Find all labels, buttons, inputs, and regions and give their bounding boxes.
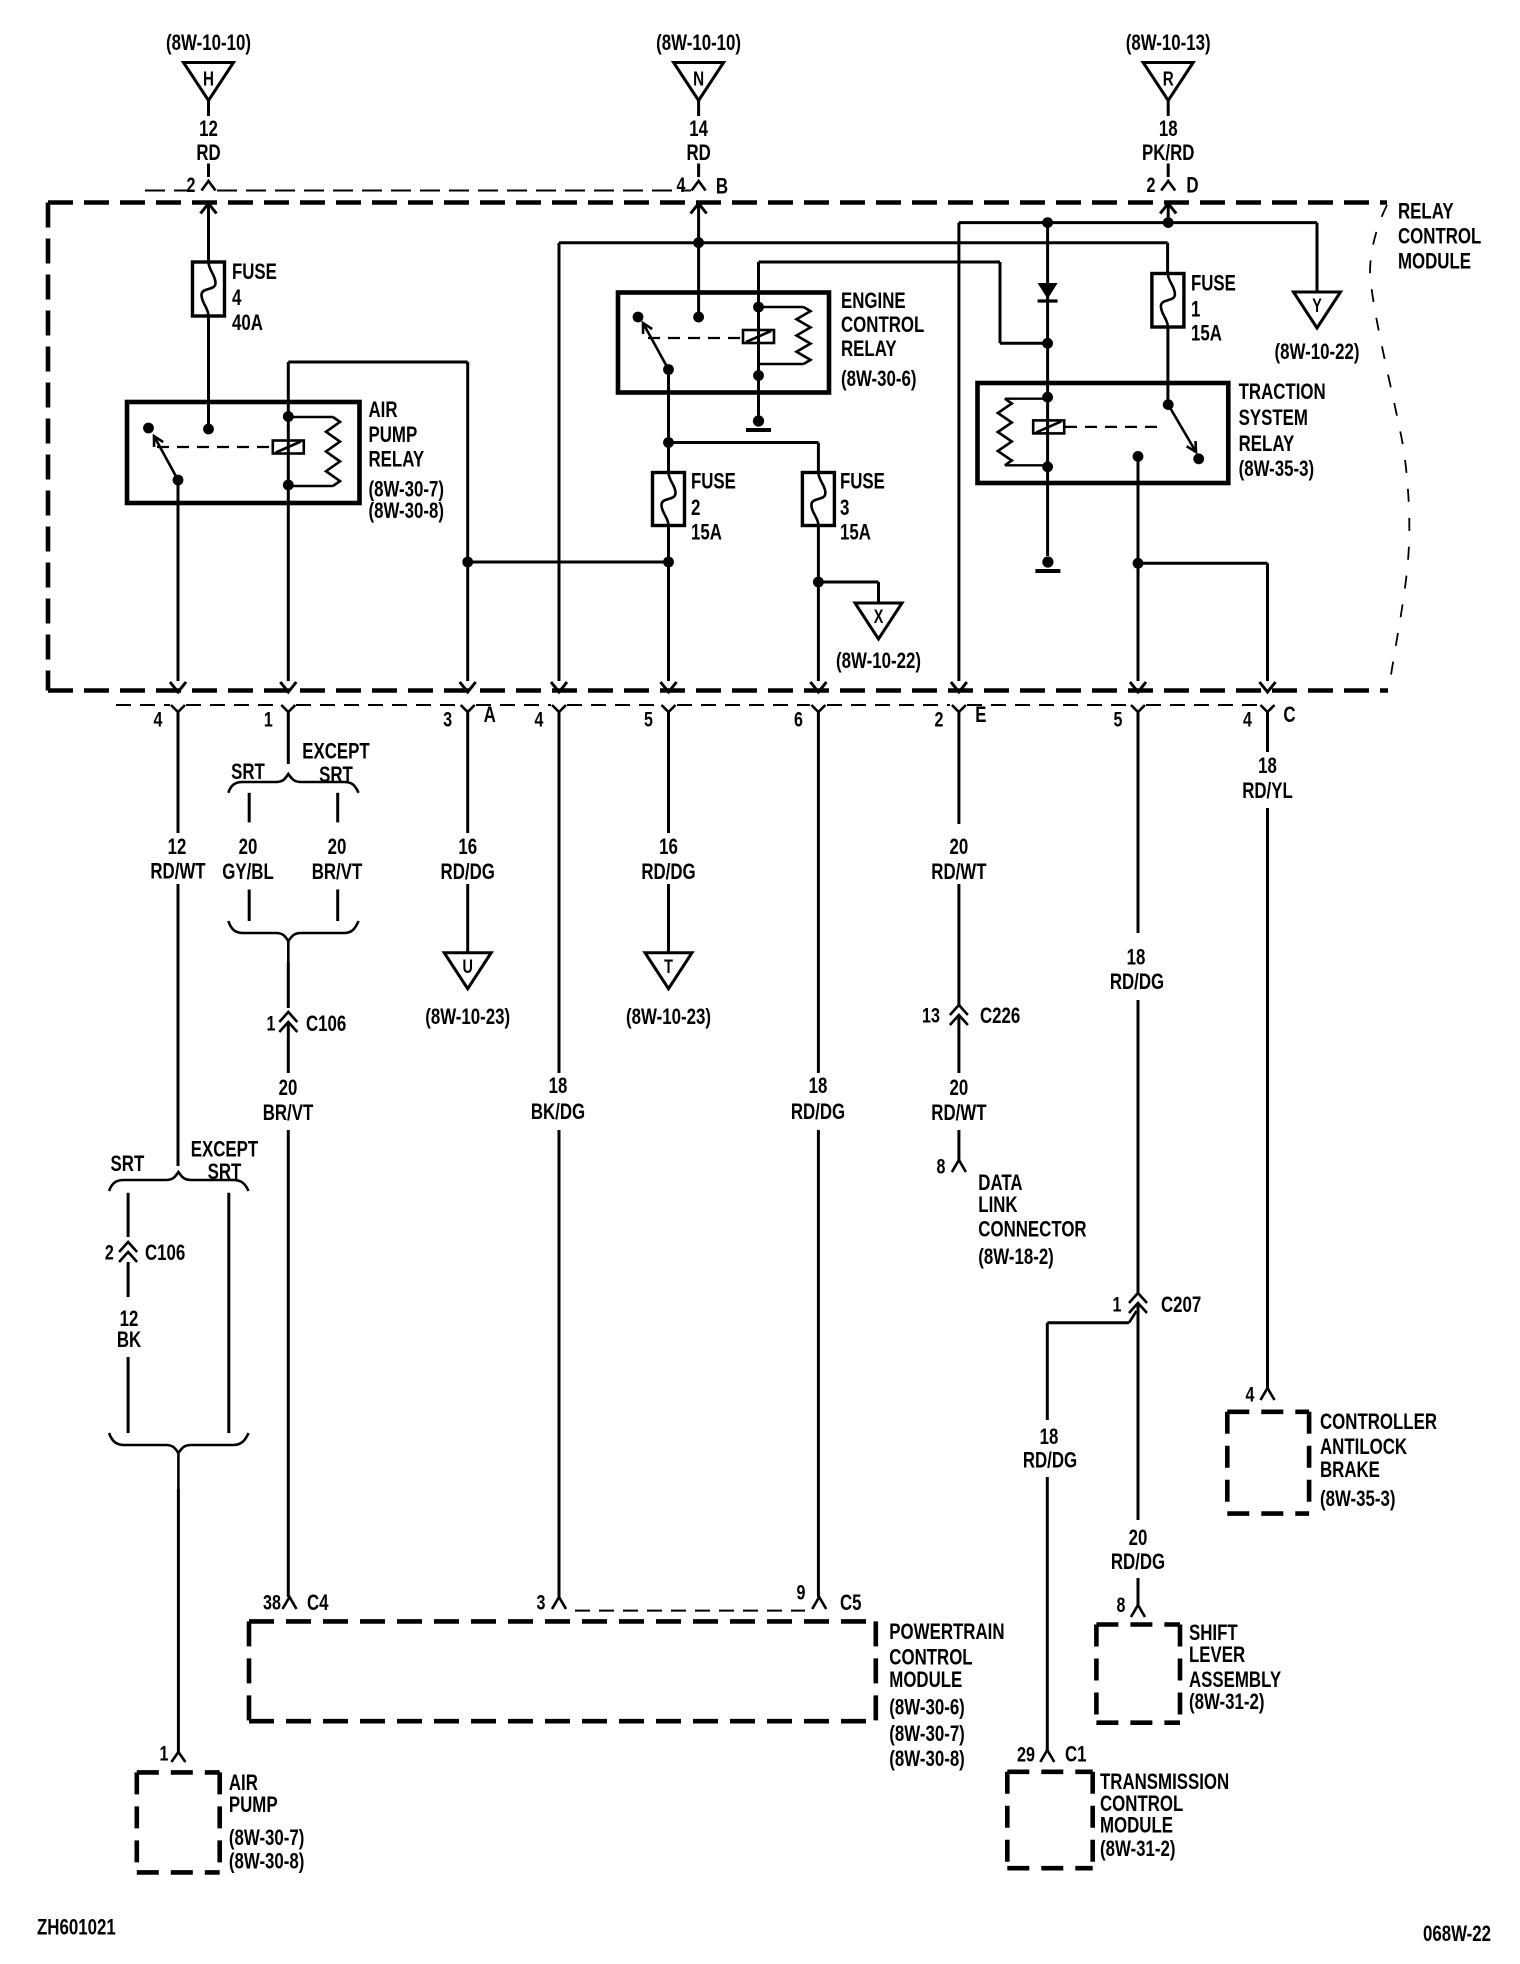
srt option brace upper — [228, 774, 358, 793]
relay control module label — [1398, 199, 1481, 274]
pin 4 exit arrow — [170, 682, 186, 692]
svg-text:1: 1 — [264, 708, 273, 732]
wire E column — [957, 223, 960, 681]
svg-text:(8W-10-10): (8W-10-10) — [166, 30, 251, 55]
branch to pin C — [1138, 563, 1268, 681]
connector T (8W-10-23) — [626, 953, 711, 1029]
wire to TCM pin29 — [1046, 1477, 1049, 1750]
svg-text:6: 6 — [794, 708, 803, 732]
svg-text:CONNECTOR: CONNECTOR — [978, 1217, 1086, 1242]
svg-text:H: H — [203, 68, 214, 90]
in-line connector C226 pin 13 — [922, 1003, 1020, 1028]
wire traction output to pin5 — [1133, 456, 1144, 681]
svg-text:RD/DG: RD/DG — [1023, 1447, 1077, 1472]
node D entry arrow into module — [1160, 204, 1176, 223]
svg-text:RD: RD — [196, 140, 220, 165]
svg-text:(8W-10-23): (8W-10-23) — [425, 1004, 510, 1029]
pin 1 exit arrow — [280, 682, 296, 692]
svg-text:(8W-10-22): (8W-10-22) — [1275, 339, 1360, 364]
svg-text:5: 5 — [644, 708, 653, 732]
wire below C226 — [957, 1015, 960, 1073]
svg-text:CONTROL: CONTROL — [841, 312, 924, 337]
svg-text:1: 1 — [267, 1012, 276, 1036]
wire pin4 from switch pivot — [177, 480, 180, 681]
TCM pin 29 connector — [1017, 1742, 1086, 1767]
svg-text:20: 20 — [328, 834, 347, 859]
svg-text:CONTROL: CONTROL — [1398, 224, 1481, 249]
except stub right — [336, 793, 339, 823]
wire BR/VT to PCM — [287, 1130, 290, 1597]
svg-text:1: 1 — [1113, 1293, 1122, 1317]
wire coil top to node A column — [288, 362, 467, 681]
wire fuse4 to air pump relay — [207, 316, 210, 429]
engine control relay coil resistor — [759, 307, 811, 364]
svg-text:4: 4 — [535, 708, 544, 732]
powertrain control module dashed box — [249, 1621, 876, 1721]
wire B to BK/DG column — [559, 243, 699, 681]
module pin 5 connector — [644, 705, 675, 732]
drawing number right — [1423, 1921, 1491, 1946]
module pin 5 connector — [1114, 705, 1145, 732]
svg-text:PK/RD: PK/RD — [1142, 140, 1194, 165]
svg-text:ANTILOCK: ANTILOCK — [1320, 1434, 1408, 1459]
svg-text:5: 5 — [1114, 708, 1123, 732]
svg-text:AIR: AIR — [369, 397, 398, 422]
air pump relay switch contact — [143, 423, 154, 434]
svg-text:TRACTION: TRACTION — [1239, 379, 1326, 404]
svg-text:CONTROL: CONTROL — [889, 1644, 972, 1669]
wire 12 RD/WT upper — [177, 712, 180, 833]
fuse 2 15A — [653, 473, 685, 526]
svg-text:15A: 15A — [691, 520, 722, 545]
module pin 4 connector — [535, 705, 566, 732]
svg-text:4: 4 — [1243, 708, 1252, 732]
svg-text:N: N — [693, 68, 704, 90]
wire fuse2 to pin5 — [663, 526, 674, 682]
wire below C106-2 — [127, 1262, 130, 1297]
svg-text:C106: C106 — [306, 1011, 346, 1036]
except-srt stub wire right — [227, 1193, 230, 1433]
wire fuse1 feed — [1166, 243, 1169, 274]
CAB pin 4 connector — [1246, 1382, 1275, 1406]
svg-text:SRT: SRT — [231, 759, 265, 784]
pin 6 exit arrow — [810, 682, 826, 692]
svg-text:BRAKE: BRAKE — [1320, 1457, 1380, 1482]
traction relay coil box — [1033, 420, 1064, 433]
svg-text:RD/WT: RD/WT — [150, 859, 205, 884]
wire 18 RD/YL upper — [1266, 712, 1269, 752]
engine control relay label — [841, 288, 924, 391]
svg-text:15A: 15A — [840, 520, 871, 545]
svg-text:2: 2 — [187, 173, 196, 197]
traction relay coil resistor — [998, 399, 1048, 466]
in-line connector C207 pin 1 — [1113, 1292, 1202, 1317]
air pump relay coil box — [273, 441, 304, 454]
shift lever assembly dashed box — [1096, 1625, 1180, 1723]
wire 18 RD/DG p5R lower — [1137, 1000, 1140, 1293]
traction relay output terminal — [1133, 451, 1144, 462]
wire label 20 RD/WT upper — [931, 834, 986, 884]
module pin 1 connector — [264, 705, 295, 732]
svg-text:MODULE: MODULE — [1398, 249, 1471, 274]
svg-text:(8W-30-7): (8W-30-7) — [229, 1825, 305, 1850]
svg-text:15A: 15A — [1191, 321, 1222, 346]
svg-text:(8W-30-6): (8W-30-6) — [841, 366, 917, 391]
svg-text:RD/YL: RD/YL — [1242, 778, 1293, 803]
branch wire to TCM — [1047, 1311, 1136, 1420]
svg-text:EXCEPT: EXCEPT — [191, 1137, 259, 1162]
svg-text:8: 8 — [1117, 1593, 1126, 1617]
DLC pin 8 connector — [937, 1155, 966, 1179]
wire label 18 RD/DG p6 — [791, 1073, 845, 1124]
air pump dashed box — [137, 1772, 220, 1872]
wire 18 RD/DG p6 lower — [817, 1130, 820, 1597]
fuse 4 40A — [193, 262, 225, 316]
wire A-column to fuse2 bottom — [468, 561, 669, 564]
wire coil top to diode node — [759, 262, 1048, 343]
svg-text:T: T — [664, 957, 673, 978]
svg-text:(8W-31-2): (8W-31-2) — [1189, 1689, 1265, 1714]
connector Y (8W-10-22) — [1275, 292, 1360, 364]
air pump relay actuate dash link — [157, 446, 272, 448]
svg-text:(8W-35-3): (8W-35-3) — [1239, 456, 1315, 481]
svg-text:BR/VT: BR/VT — [263, 1100, 314, 1125]
svg-text:LEVER: LEVER — [1189, 1642, 1245, 1667]
svg-text:C1: C1 — [1065, 1742, 1087, 1767]
svg-text:2: 2 — [934, 708, 943, 732]
branch to connector Y — [1316, 223, 1319, 292]
svg-text:16: 16 — [659, 834, 678, 859]
svg-text:(8W-18-2): (8W-18-2) — [978, 1244, 1054, 1269]
module pin 6 connector — [794, 705, 825, 732]
svg-text:SRT: SRT — [111, 1151, 145, 1176]
node 2 entry arrow into module — [201, 204, 217, 263]
diode bottom junction — [1042, 338, 1053, 349]
svg-text:C106: C106 — [145, 1240, 185, 1265]
svg-text:C4: C4 — [307, 1590, 329, 1615]
svg-text:12: 12 — [168, 834, 187, 859]
svg-text:C226: C226 — [980, 1003, 1020, 1028]
air pump relay switch pivot — [173, 475, 184, 486]
svg-text:EXCEPT: EXCEPT — [302, 739, 370, 764]
wire below C207 — [1137, 1303, 1140, 1520]
wire label 20 GY/BL — [222, 834, 274, 884]
connector X (8W-10-22) — [836, 603, 921, 673]
svg-text:3: 3 — [443, 708, 452, 732]
svg-text:18: 18 — [1040, 1424, 1059, 1449]
engine control relay actuate dash link — [648, 337, 741, 339]
PCM pin 38 connector — [263, 1590, 329, 1615]
svg-text:(8W-30-6): (8W-30-6) — [889, 1695, 965, 1720]
engine control relay feed node — [693, 312, 704, 323]
engine control relay switch pivot — [663, 364, 674, 375]
wire label 14 RD — [686, 116, 710, 165]
wire 12 BK lower — [127, 1357, 130, 1433]
wire label 18 BK/DG — [531, 1073, 585, 1124]
svg-text:X: X — [874, 607, 884, 628]
svg-text:PUMP: PUMP — [229, 1792, 278, 1817]
svg-text:38: 38 — [263, 1591, 281, 1615]
in-line connector dash line at top — [145, 190, 691, 192]
traction relay coil wire — [1042, 392, 1053, 472]
air pump relay switch arm — [154, 436, 178, 480]
svg-text:14: 14 — [689, 116, 708, 141]
pin E exit arrow — [951, 682, 967, 692]
in-line connector C106 pin 2 — [105, 1240, 185, 1265]
wire label 18 RD/DG TCM — [1023, 1424, 1077, 1472]
svg-text:U: U — [463, 957, 473, 978]
svg-text:RD/DG: RD/DG — [791, 1099, 845, 1124]
svg-text:4: 4 — [677, 173, 686, 197]
svg-text:RD/DG: RD/DG — [441, 859, 495, 884]
svg-text:RELAY: RELAY — [369, 447, 425, 472]
svg-text:ZH601021: ZH601021 — [37, 1915, 116, 1940]
svg-text:CONTROLLER: CONTROLLER — [1320, 1409, 1437, 1434]
svg-text:POWERTRAIN: POWERTRAIN — [889, 1619, 1004, 1644]
wire label 16 RD/DG A — [441, 834, 495, 884]
controller antilock brake dashed box — [1227, 1412, 1309, 1514]
wire B node down — [693, 237, 704, 317]
svg-text:BR/VT: BR/VT — [312, 859, 363, 884]
module pin 4/C connector — [1243, 702, 1296, 732]
svg-text:(8W-10-23): (8W-10-23) — [626, 1004, 711, 1029]
wire label 20 RD/WT lower — [931, 1075, 986, 1125]
svg-text:9: 9 — [797, 1580, 806, 1604]
traction relay switch pivot — [1193, 453, 1204, 464]
svg-text:20: 20 — [1129, 1525, 1148, 1550]
module pin 3/A connector — [443, 702, 496, 732]
svg-text:(8W-10-13): (8W-10-13) — [1126, 30, 1211, 55]
svg-text:FUSE: FUSE — [232, 259, 277, 284]
wire 16 RD/DG T upper — [667, 712, 670, 833]
svg-text:PUMP: PUMP — [369, 422, 418, 447]
svg-text:20: 20 — [950, 1075, 969, 1100]
wire label 20 BR/VT lower — [263, 1075, 314, 1125]
svg-text:GY/BL: GY/BL — [222, 859, 274, 884]
svg-text:20: 20 — [239, 834, 258, 859]
wire pin1 to srt brace — [287, 712, 290, 764]
svg-text:RD/WT: RD/WT — [931, 1100, 986, 1125]
node D junction — [1163, 217, 1174, 228]
svg-text:1: 1 — [160, 1742, 169, 1766]
wire fuse3 to pin6 — [813, 526, 824, 682]
air pump relay coil resistor — [288, 417, 340, 486]
svg-text:D: D — [1186, 173, 1198, 198]
svg-text:C5: C5 — [840, 1590, 862, 1615]
wire 16 RD/DG A upper — [466, 712, 469, 833]
engine control relay switch contact — [633, 312, 644, 323]
engine control relay box — [618, 293, 829, 393]
svg-text:(8W-30-8): (8W-30-8) — [369, 498, 445, 523]
svg-text:8: 8 — [937, 1155, 946, 1179]
svg-text:SRT: SRT — [208, 1159, 242, 1184]
wire label 16 RD/DG T — [641, 834, 695, 884]
traction system relay box — [978, 383, 1229, 483]
svg-text:1: 1 — [1191, 297, 1200, 322]
svg-text:FUSE: FUSE — [1191, 271, 1236, 296]
fuse 2 label — [691, 469, 736, 545]
transmission control module label — [1100, 1769, 1229, 1861]
wire to C106-1 — [287, 962, 290, 1008]
wire to air pump — [177, 1489, 180, 1752]
wire 18 BK/DG lower — [558, 1130, 561, 1597]
svg-text:18: 18 — [549, 1073, 568, 1098]
PCM pin row dash line — [575, 1610, 805, 1612]
wire 16 RD/DG A lower — [466, 884, 469, 953]
svg-text:4: 4 — [154, 708, 163, 732]
wire label 12 RD/WT — [150, 834, 205, 884]
svg-text:B: B — [716, 174, 728, 199]
svg-text:RD: RD — [686, 140, 710, 165]
wire 18 BK/DG upper — [558, 712, 561, 1073]
wire D top rail — [959, 221, 1317, 224]
engine control relay coil box — [743, 330, 774, 343]
power feed connector H (8W-10-10) — [166, 30, 251, 197]
engine control relay coil wire — [753, 302, 764, 381]
svg-text:068W-22: 068W-22 — [1423, 1921, 1491, 1946]
wire 20 RD/WT mid — [957, 884, 960, 1005]
svg-text:20: 20 — [950, 834, 969, 859]
svg-text:RELAY: RELAY — [1398, 199, 1454, 224]
svg-text:BK: BK — [117, 1327, 142, 1352]
wire 20 RD/WT upper — [957, 712, 960, 824]
wire diode column — [1046, 223, 1049, 398]
svg-text:R: R — [1163, 68, 1174, 90]
module pin 4 connector — [154, 705, 185, 732]
svg-text:RD/WT: RD/WT — [931, 859, 986, 884]
pin 5 exit arrow — [661, 682, 677, 692]
PCM pin 9 connector — [797, 1580, 862, 1615]
svg-text:LINK: LINK — [978, 1192, 1018, 1217]
air pump relay feed node — [203, 424, 214, 435]
fuse 1 15A — [1152, 274, 1184, 328]
power feed connector N (8W-10-10) — [656, 30, 741, 199]
svg-text:29: 29 — [1017, 1742, 1035, 1766]
svg-text:BK/DG: BK/DG — [531, 1099, 585, 1124]
wire switch to fuses — [663, 370, 818, 473]
svg-text:2: 2 — [105, 1241, 114, 1265]
svg-text:(8W-10-22): (8W-10-22) — [836, 648, 921, 673]
srt stub left lower — [248, 890, 251, 922]
svg-text:40A: 40A — [232, 310, 263, 335]
svg-text:MODULE: MODULE — [889, 1667, 962, 1692]
srt option brace lower — [109, 1172, 249, 1191]
wire label 12 RD — [196, 116, 220, 165]
svg-text:FUSE: FUSE — [691, 469, 736, 494]
air pump pin 1 connector — [160, 1742, 186, 1766]
in-line connector C106 pin 1 — [267, 1011, 347, 1036]
traction relay switch arm — [1168, 405, 1196, 452]
wire label 18 RD/YL — [1242, 753, 1293, 803]
closing brace lower — [109, 1433, 249, 1489]
svg-text:3: 3 — [537, 1591, 546, 1615]
wire 18 RD/DG p6 upper — [817, 712, 820, 1073]
svg-text:(8W-30-8): (8W-30-8) — [229, 1849, 305, 1874]
traction relay switch contact — [1163, 399, 1174, 410]
engine relay coil ground — [746, 376, 771, 431]
wire label 18 PK/RD — [1142, 116, 1194, 165]
svg-text:18: 18 — [1258, 753, 1277, 778]
svg-text:ENGINE: ENGINE — [841, 288, 906, 313]
power feed connector R (8W-10-13) — [1126, 30, 1211, 198]
wire 18 RD/YL lower — [1266, 808, 1269, 1388]
srt labels lower — [111, 1137, 259, 1185]
pin 4b exit arrow — [551, 682, 567, 692]
srt labels upper — [231, 739, 370, 788]
svg-text:4: 4 — [232, 285, 242, 310]
wire 18 RD/DG p5R upper — [1137, 712, 1140, 933]
pin row dash line — [116, 704, 1259, 706]
svg-text:(8W-10-10): (8W-10-10) — [656, 30, 741, 55]
fuse 1 label — [1191, 271, 1236, 346]
svg-text:13: 13 — [922, 1004, 940, 1028]
pin 5R exit arrow — [1130, 682, 1146, 692]
srt stub wire left — [127, 1193, 130, 1237]
shift lever pin 8 connector — [1117, 1593, 1145, 1617]
traction relay actuate dash link — [1065, 426, 1160, 428]
svg-text:SYSTEM: SYSTEM — [1239, 405, 1308, 430]
srt stub left — [248, 793, 251, 823]
wire below C106-1 — [287, 1022, 290, 1073]
svg-text:MODULE: MODULE — [1100, 1813, 1173, 1838]
module pin 2/E connector — [934, 702, 986, 732]
junction node on A column — [462, 557, 473, 568]
svg-text:(8W-31-2): (8W-31-2) — [1100, 1836, 1176, 1861]
branch to connector X — [818, 582, 878, 603]
svg-text:16: 16 — [458, 834, 477, 859]
svg-text:RELAY: RELAY — [1239, 431, 1295, 456]
closing brace upper — [228, 921, 358, 962]
svg-text:RELAY: RELAY — [841, 336, 897, 361]
svg-text:2: 2 — [1147, 173, 1156, 197]
svg-text:RD/DG: RD/DG — [1110, 969, 1164, 994]
wire RD/WT to DLC — [957, 1130, 960, 1160]
svg-text:(8W-30-7): (8W-30-7) — [889, 1721, 965, 1746]
traction system relay label — [1239, 379, 1326, 481]
wire to shift lever — [1137, 1578, 1140, 1605]
fuse 4 label — [232, 259, 277, 335]
diode junction top — [1042, 217, 1053, 228]
wire label 12 BK — [117, 1306, 142, 1352]
connector U (8W-10-23) — [425, 953, 510, 1029]
wire B node to fuse1 column — [699, 241, 1168, 244]
pin C exit arrow — [1260, 682, 1276, 692]
fuse 3 label — [840, 469, 885, 545]
node B entry arrow into module — [691, 204, 707, 243]
air pump relay label — [369, 397, 445, 523]
svg-text:18: 18 — [809, 1073, 828, 1098]
wire label 18 RD/DG p5R — [1110, 945, 1164, 994]
air pump relay coil wire — [283, 411, 294, 490]
svg-text:Y: Y — [1312, 296, 1322, 317]
air pump label — [229, 1770, 305, 1874]
PCM pin 3 connector — [537, 1591, 566, 1615]
powertrain control module label — [889, 1619, 1004, 1771]
svg-text:(8W-35-3): (8W-35-3) — [1320, 1486, 1396, 1511]
svg-text:RD/DG: RD/DG — [1111, 1549, 1165, 1574]
controller antilock brake label — [1320, 1409, 1437, 1511]
wire label 20 BR/VT — [312, 834, 363, 884]
svg-text:18: 18 — [1127, 945, 1146, 970]
data link connector label — [978, 1170, 1086, 1269]
svg-text:18: 18 — [1159, 116, 1178, 141]
wire label 20 RD/DG shift — [1111, 1525, 1165, 1574]
svg-text:12: 12 — [199, 116, 218, 141]
except stub right lower — [336, 890, 339, 922]
relay control module dashed border — [48, 203, 1409, 691]
svg-text:C: C — [1283, 702, 1295, 727]
wire 12 RD/WT lower — [177, 884, 180, 1166]
